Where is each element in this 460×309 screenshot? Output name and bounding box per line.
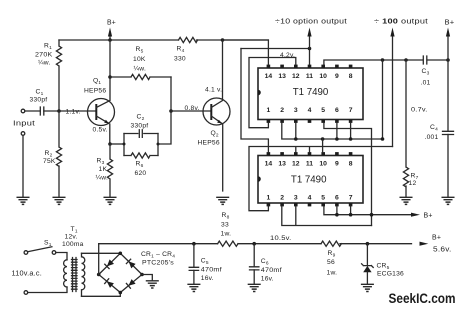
- B+ arrow (IC supply): [411, 213, 433, 220]
- node B+ line pin6: [335, 213, 339, 217]
- svg-text:110v.a.c.: 110v.a.c.: [12, 271, 43, 278]
- transformer T1 12v 100ma: [28, 226, 85, 296]
- bridge rectifier CR1-CR4 diamond: [97, 251, 175, 294]
- node: R4 / Q2 collector / pin14 wire junction: [221, 38, 225, 42]
- wire U2 pin12/pin11 line with pin1 bracket: [249, 147, 393, 211]
- svg-text:SeekIC.com: SeekIC.com: [389, 290, 456, 306]
- ground (CR5): [362, 284, 374, 291]
- resistor R7 12: [403, 60, 418, 197]
- B+ 5.6v arrow: [420, 235, 452, 254]
- node: box left: [123, 143, 126, 146]
- capacitor C5 470mf 16v: [189, 244, 222, 284]
- ground (Q2 emitter): [217, 197, 229, 204]
- svg-text:ECG136: ECG136: [377, 271, 404, 278]
- svg-text:330: 330: [174, 56, 186, 63]
- svg-text:10: 10: [319, 73, 327, 80]
- node rail/B+: [446, 58, 450, 62]
- svg-text:1.1v.: 1.1v.: [66, 108, 81, 115]
- svg-text:12: 12: [292, 73, 300, 80]
- capacitor C1 330pf: [25, 89, 59, 116]
- node: Q1 collector / R5 junction: [108, 75, 112, 79]
- wire bus U1 pin5 to B+ line: [324, 123, 372, 226]
- svg-text:3: 3: [294, 194, 298, 201]
- wire U2 pins 5,6,7 to B+ line: [324, 206, 412, 214]
- wire secondary top to bridge: [82, 252, 121, 254]
- node bus U2 pin10: [321, 137, 325, 141]
- wire Q2 collector to U1 pin 14: [223, 40, 269, 65]
- node bus pin6: [335, 137, 339, 141]
- svg-text:T1 7490: T1 7490: [293, 87, 329, 98]
- svg-text:13: 13: [278, 73, 286, 80]
- 110v.a.c. terminal lower: [24, 291, 28, 295]
- node bus right end: [381, 137, 385, 141]
- resistor R9 56 1w: [321, 241, 341, 276]
- ground (C5): [188, 284, 200, 291]
- wire U2 pins 2,3 bus: [282, 206, 372, 225]
- svg-text:4.1 v.: 4.1 v.: [205, 87, 222, 94]
- divide-by-10 output arrow: [275, 19, 347, 49]
- svg-text:9: 9: [335, 73, 339, 80]
- svg-text:620: 620: [135, 170, 147, 177]
- svg-text:2: 2: [280, 107, 284, 114]
- ground (R2): [53, 197, 65, 204]
- svg-text:7: 7: [349, 194, 353, 201]
- node: box right: [157, 143, 160, 146]
- wire to Q2 base: [171, 110, 211, 112]
- svg-text:÷10 option output: ÷10 option output: [275, 19, 347, 26]
- svg-text:10: 10: [319, 160, 327, 167]
- diode CR1 (top-left): [107, 259, 114, 266]
- ground (R3): [104, 197, 116, 204]
- wire to Q1 base: [59, 110, 96, 112]
- resistor R8 33 1w: [218, 212, 238, 246]
- transistor Q1 HEP56: [84, 40, 115, 144]
- svg-text:14: 14: [265, 160, 273, 167]
- svg-text:470mf: 470mf: [201, 267, 222, 274]
- svg-text:12: 12: [292, 160, 300, 167]
- ground (C4): [442, 197, 454, 204]
- B+ supply arrow (top right): [445, 20, 455, 61]
- svg-text:8: 8: [349, 160, 353, 167]
- capacitor C3 .01: [421, 56, 449, 87]
- resistor R3 1K 1/4w: [96, 144, 113, 197]
- op-amp/IC U1: first 7490 decade counter: [258, 65, 363, 123]
- resistor R2 75K: [43, 111, 62, 197]
- wire U1 pin10 to top rail: [324, 60, 423, 65]
- svg-text:56: 56: [327, 259, 335, 266]
- svg-text:6: 6: [335, 107, 339, 114]
- svg-text:5.6v.: 5.6v.: [433, 247, 452, 254]
- node: C1 / R1 / R2 / Q1 base junction: [57, 109, 61, 113]
- resistor R1 270K 1/4w: [35, 40, 62, 111]
- svg-text:4: 4: [308, 107, 312, 114]
- node: B+ / R1 rail / Q1 collector junction: [108, 38, 112, 42]
- svg-text:330pf: 330pf: [131, 123, 149, 130]
- svg-text:HEP56: HEP56: [198, 140, 220, 147]
- svg-text:16v.: 16v.: [201, 275, 214, 282]
- svg-text:13: 13: [278, 160, 286, 167]
- resistor R5 10K 1/4w: [110, 46, 171, 80]
- svg-text:11: 11: [306, 73, 313, 80]
- svg-text:¼w.: ¼w.: [134, 66, 147, 73]
- node pin11 junction: [308, 47, 312, 51]
- svg-text:0.5v.: 0.5v.: [93, 127, 108, 134]
- svg-text:B+: B+: [432, 235, 441, 242]
- svg-text:12v.: 12v.: [65, 234, 78, 241]
- input terminal 2 grounded: [21, 132, 25, 136]
- ground (C6): [248, 284, 260, 291]
- svg-text:1w.: 1w.: [221, 231, 232, 238]
- svg-text:1w.: 1w.: [327, 270, 338, 277]
- svg-text:9: 9: [335, 160, 339, 167]
- svg-text:÷ 100 output: ÷ 100 output: [374, 19, 428, 26]
- svg-text:5: 5: [321, 194, 325, 201]
- node bus pin3: [294, 137, 298, 141]
- svg-text:330pf: 330pf: [30, 97, 48, 104]
- wire box to Q2 base line: [158, 77, 171, 144]
- node bus pin7: [349, 137, 353, 141]
- svg-text:PTC205's: PTC205's: [142, 260, 174, 267]
- resistor R6 620: [124, 153, 158, 177]
- node C5: [192, 242, 196, 246]
- wire bridge plus riser to 10.5v rail: [98, 244, 100, 275]
- svg-text:75K: 75K: [43, 158, 56, 165]
- svg-text:3: 3: [294, 107, 298, 114]
- wire U1 pin12 to pin1 feedback bracket: [249, 58, 296, 128]
- capacitor C2 330pf: [124, 114, 158, 156]
- svg-text:1K: 1K: [99, 166, 108, 173]
- switch S1: [24, 240, 56, 255]
- wire bus U1 pins 2,3,6,7 ground bus: [282, 60, 383, 139]
- node B+ line riser: [370, 213, 374, 217]
- node: Q1 emitter / R3 / C2 junction: [108, 142, 112, 146]
- B+ supply arrow (top left): [107, 20, 116, 41]
- svg-text:12: 12: [409, 180, 417, 187]
- diode CR3 (bottom-left): [107, 281, 114, 288]
- svg-text:6: 6: [335, 194, 339, 201]
- svg-text:.01: .01: [421, 80, 431, 87]
- zener diode CR5 ECG136: [362, 244, 404, 284]
- ground (bridge): [147, 281, 159, 288]
- diode CR2 (top-right): [129, 261, 136, 268]
- svg-text:1: 1: [267, 107, 271, 114]
- svg-text:.001: .001: [425, 134, 439, 141]
- svg-text:Input: Input: [13, 121, 35, 128]
- svg-text:¼w.: ¼w.: [38, 60, 51, 67]
- svg-text:HEP56: HEP56: [84, 88, 106, 95]
- wire secondary bottom to bridge: [82, 293, 121, 297]
- svg-text:8: 8: [349, 73, 353, 80]
- capacitor C6 470mf 16v: [250, 244, 282, 284]
- svg-text:100ma: 100ma: [62, 241, 84, 248]
- resistor R4 330: [174, 37, 197, 62]
- svg-text:5: 5: [321, 107, 325, 114]
- node rail/R7: [404, 58, 408, 62]
- wire emitter to C2 box: [110, 143, 124, 145]
- wire U1 pin11 riser: [241, 49, 310, 65]
- svg-text:10.5v.: 10.5v.: [270, 235, 292, 242]
- svg-text:B+: B+: [107, 20, 116, 27]
- svg-text:4.2v.: 4.2v.: [280, 52, 295, 59]
- svg-text:T1 7490: T1 7490: [291, 174, 327, 185]
- svg-text:B+: B+: [424, 213, 433, 220]
- wire B+ top rail: [59, 39, 268, 41]
- svg-text:11: 11: [306, 160, 313, 167]
- svg-text:1: 1: [267, 194, 271, 201]
- ground (input): [17, 197, 29, 204]
- diode CR4 (bottom-right): [128, 279, 135, 286]
- node B+ line pin7: [349, 213, 353, 217]
- svg-text:16v.: 16v.: [261, 276, 274, 283]
- svg-text:470mf: 470mf: [261, 267, 282, 274]
- input terminal 1: [21, 109, 25, 113]
- svg-text:33: 33: [221, 222, 229, 229]
- svg-text:B+: B+: [445, 20, 455, 27]
- node rail/382: [381, 58, 385, 62]
- svg-text:0.8v.: 0.8v.: [185, 105, 200, 112]
- svg-text:0.7v.: 0.7v.: [411, 107, 428, 114]
- IC U2: second 7490 decade counter: [258, 152, 363, 206]
- svg-text:14: 14: [265, 73, 273, 80]
- wire bridge minus to ground: [142, 275, 152, 281]
- node CR5: [366, 242, 370, 246]
- svg-text:10K: 10K: [133, 56, 146, 63]
- node C6: [252, 242, 256, 246]
- node: R5 / C2 / Q2 base junction: [169, 109, 173, 113]
- transistor Q2 HEP56: [198, 40, 231, 191]
- svg-text:¼w.: ¼w.: [96, 175, 109, 182]
- svg-text:270K: 270K: [35, 52, 53, 59]
- divide-by-100 output arrow: [374, 19, 428, 147]
- wire U2 pin10 riser: [322, 139, 324, 152]
- svg-text:7: 7: [349, 107, 353, 114]
- 10.5v rail: [99, 243, 412, 245]
- svg-text:4: 4: [308, 194, 312, 201]
- wire U1 pin11 to U2 pin14: [241, 49, 268, 153]
- ground (R7): [400, 197, 412, 204]
- capacitor C4 .001: [425, 60, 454, 197]
- svg-text:2: 2: [280, 194, 284, 201]
